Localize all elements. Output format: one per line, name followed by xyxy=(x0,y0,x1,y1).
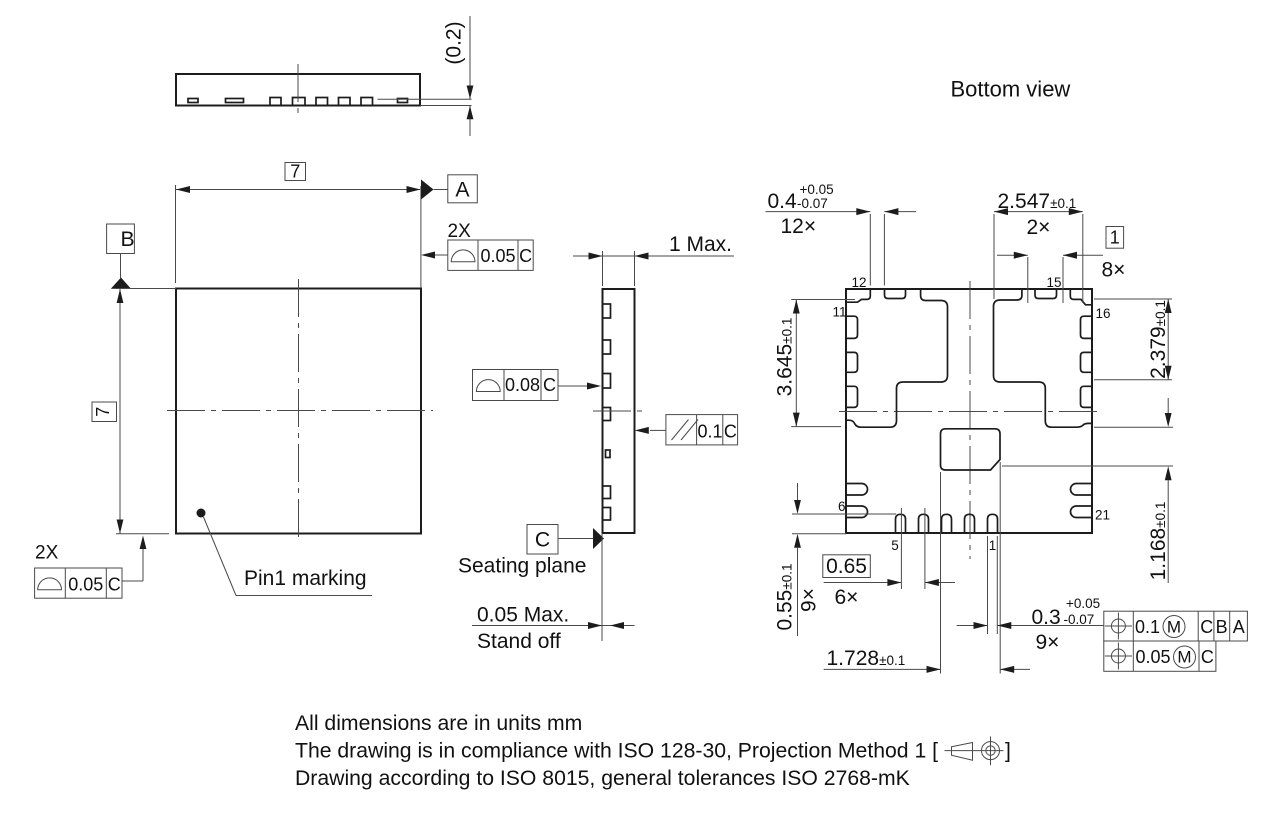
svg-text:9×: 9× xyxy=(1036,631,1060,654)
svg-text:0.65: 0.65 xyxy=(826,555,867,578)
top view centerlines xyxy=(167,279,433,542)
svg-text:0.05 Max.: 0.05 Max. xyxy=(477,604,569,627)
feature frame profile 0.08 C xyxy=(473,370,602,401)
svg-text:0.3: 0.3 xyxy=(1032,606,1061,629)
side view centerline xyxy=(297,64,299,114)
svg-text:11: 11 xyxy=(832,305,846,320)
svg-text:]: ] xyxy=(1005,740,1011,763)
svg-text:0.05: 0.05 xyxy=(480,246,515,266)
right edge pads 17 18 19 xyxy=(1081,316,1093,407)
feature frame profile 0.05 C bottom left xyxy=(35,536,147,599)
svg-text:C: C xyxy=(543,375,556,395)
side view pads xyxy=(188,98,408,106)
svg-text:21: 21 xyxy=(1095,508,1110,523)
svg-text:7: 7 xyxy=(290,162,300,182)
dimension 0.05 Max stand off xyxy=(472,604,635,654)
projection method symbol cone xyxy=(945,743,1004,761)
bottom view title xyxy=(951,77,1071,102)
svg-text:M: M xyxy=(1177,648,1191,667)
side view vertical pads xyxy=(603,304,611,520)
pin1 marking dot xyxy=(197,509,206,518)
projection method symbol circles xyxy=(982,737,1000,766)
pad 13 notch xyxy=(885,289,906,299)
dimension 0.65 boxed 6x xyxy=(823,508,955,609)
svg-text:B: B xyxy=(1216,617,1228,637)
svg-text:A: A xyxy=(455,179,470,202)
feature frame parallelism 0.1 C xyxy=(635,415,738,445)
svg-text:0.05: 0.05 xyxy=(1136,647,1171,667)
side view (horizontal) package body xyxy=(176,74,420,106)
svg-text:A: A xyxy=(1233,617,1245,637)
pin1 marking leader and text xyxy=(204,517,373,596)
center pad with chamfer xyxy=(941,429,1001,470)
dimension 0.3 9x xyxy=(957,536,1104,654)
dimension (0.2) xyxy=(378,16,474,136)
svg-text:7: 7 xyxy=(93,407,113,417)
datum B xyxy=(107,224,176,289)
notes line 1 xyxy=(295,712,582,735)
corner pad 12 xyxy=(846,289,870,302)
svg-text:(0.2): (0.2) xyxy=(443,21,466,64)
svg-text:8×: 8× xyxy=(1102,259,1126,282)
svg-text:Pin1 marking: Pin1 marking xyxy=(244,567,367,590)
left edge pads 11 10 9 xyxy=(846,316,858,407)
svg-text:Seating plane: Seating plane xyxy=(458,555,586,578)
svg-text:12×: 12× xyxy=(781,215,817,238)
side view (vertical) package body xyxy=(603,289,635,533)
svg-text:Drawing according to ISO 8015,: Drawing according to ISO 8015, general t… xyxy=(295,767,910,790)
right edge pads 22 21 xyxy=(1071,484,1093,518)
dimension 3.645 xyxy=(774,300,855,427)
feature frame position 0.05 M C xyxy=(1104,641,1216,671)
feature frame profile 0.05 C top right xyxy=(421,240,533,270)
svg-text:Stand off: Stand off xyxy=(477,630,561,653)
svg-text:Bottom view: Bottom view xyxy=(951,77,1071,102)
svg-text:1: 1 xyxy=(1110,228,1120,248)
2X label bottom left xyxy=(35,543,59,564)
2X label top right xyxy=(448,221,472,242)
dimension 7 vertical xyxy=(92,289,169,534)
svg-text:C: C xyxy=(108,575,121,595)
dimension 7 horizontal xyxy=(176,162,421,289)
svg-text:1 Max.: 1 Max. xyxy=(669,233,732,256)
svg-text:+0.05: +0.05 xyxy=(1066,596,1100,611)
svg-text:C: C xyxy=(1200,617,1213,637)
svg-text:1: 1 xyxy=(989,538,997,553)
seating plane line xyxy=(601,533,603,641)
notes line 2 with projection symbol xyxy=(295,740,1011,763)
pad 15 notch xyxy=(1035,289,1057,299)
svg-text:C: C xyxy=(519,246,532,266)
thermal pad L right xyxy=(994,289,1093,427)
svg-text:-0.07: -0.07 xyxy=(797,196,828,211)
corner pad 16 xyxy=(1070,289,1092,305)
side view vertical centerline xyxy=(593,410,646,412)
svg-text:2×: 2× xyxy=(1027,216,1051,239)
svg-text:All dimensions are in units mm: All dimensions are in units mm xyxy=(295,712,582,735)
top view package square xyxy=(176,289,421,534)
pad number labels xyxy=(832,275,1110,553)
svg-text:12: 12 xyxy=(851,275,866,290)
svg-text:6×: 6× xyxy=(835,586,859,609)
dimension 0.55 9x xyxy=(774,483,897,636)
svg-text:The drawing is in compliance w: The drawing is in compliance with ISO 12… xyxy=(295,740,938,763)
svg-text:+0.05: +0.05 xyxy=(800,182,834,197)
svg-text:16: 16 xyxy=(1096,306,1111,321)
svg-text:B: B xyxy=(121,228,135,251)
dimension 1.168 xyxy=(1002,398,1173,583)
svg-text:2X: 2X xyxy=(35,543,59,564)
bottom view package square xyxy=(846,289,1092,533)
svg-text:C: C xyxy=(535,529,550,552)
svg-text:9×: 9× xyxy=(798,588,821,612)
svg-text:M: M xyxy=(1167,618,1181,637)
svg-text:C: C xyxy=(724,422,737,442)
dimension 2.379 xyxy=(1094,299,1172,380)
dimension 2.547 2x xyxy=(994,190,1083,303)
feature frame position 0.1 M CBA xyxy=(1104,611,1248,641)
left edge pads 7 6 xyxy=(846,484,868,518)
thermal pad L left xyxy=(846,289,948,427)
svg-text:0.1: 0.1 xyxy=(1135,617,1160,637)
datum A xyxy=(421,175,477,203)
svg-text:0.05: 0.05 xyxy=(68,575,103,595)
svg-text:6: 6 xyxy=(838,499,846,514)
svg-text:0.08: 0.08 xyxy=(505,375,540,395)
datum C xyxy=(527,525,604,555)
dimension 1.728 xyxy=(824,462,1030,674)
dimension 1 boxed 8x xyxy=(997,227,1125,304)
svg-text:15: 15 xyxy=(1047,275,1062,290)
svg-text:0.4: 0.4 xyxy=(768,190,798,213)
svg-text:2X: 2X xyxy=(448,221,472,242)
svg-text:0.1: 0.1 xyxy=(697,422,722,442)
svg-text:5: 5 xyxy=(891,538,899,553)
dimension 0.4 12x xyxy=(766,182,917,286)
seating plane text xyxy=(458,555,586,578)
bottom edge pads 1-5 xyxy=(896,514,998,533)
bottom view centerlines xyxy=(839,281,1102,559)
notes line 3 xyxy=(295,767,910,790)
svg-text:-0.07: -0.07 xyxy=(1064,612,1095,627)
svg-text:C: C xyxy=(1201,647,1214,667)
dimension 1 Max xyxy=(573,233,734,286)
